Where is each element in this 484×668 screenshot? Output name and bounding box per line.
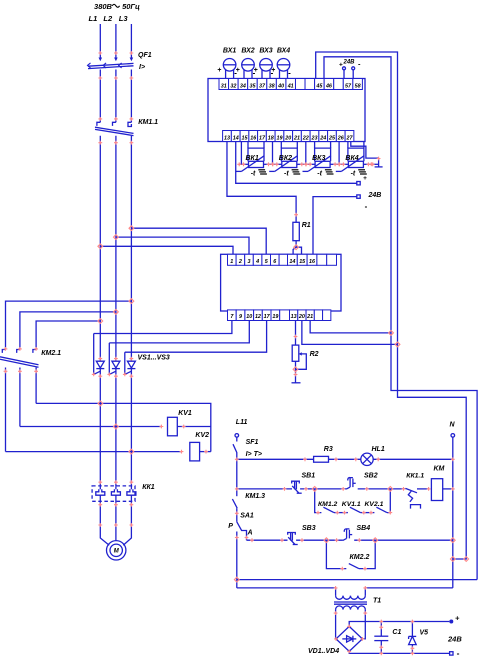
junction diamond marks xyxy=(98,226,469,582)
label KV2.1 xyxy=(365,501,384,508)
wire gate VS1 to block A2 terminal xyxy=(94,321,232,334)
wire KK1 to motor L2 xyxy=(115,507,117,541)
wire C1 upper xyxy=(380,622,382,637)
wire KV2 to right riser xyxy=(200,451,211,453)
svg-text:I> T>: I> T> xyxy=(246,451,262,458)
svg-text:24В: 24В xyxy=(447,635,462,644)
transformer T1 secondary xyxy=(336,606,366,639)
thyristor VS1 xyxy=(94,361,105,376)
svg-text:SA1: SA1 xyxy=(240,513,254,520)
wire terminal 14 to +24V terminal xyxy=(236,142,357,184)
svg-text:Т1: Т1 xyxy=(373,598,381,605)
wire terminal 27 to sensor common xyxy=(351,142,379,159)
wire L3 VS3 to KK1 xyxy=(130,376,132,486)
wire L3 supply drop xyxy=(130,24,134,61)
svg-text:40: 40 xyxy=(277,83,284,89)
wire L2 tap to block A2 input xyxy=(116,237,249,254)
svg-text:КМ2.1: КМ2.1 xyxy=(41,350,61,357)
terminal +24V output xyxy=(357,182,360,185)
wire L1 QF1 to KM1.1 xyxy=(99,70,101,123)
svg-text:КМ1.3: КМ1.3 xyxy=(245,493,265,500)
wire VS2 gate xyxy=(108,343,110,375)
svg-text:-: - xyxy=(457,648,460,658)
lamp HL1 xyxy=(361,453,373,465)
svg-text:38: 38 xyxy=(269,83,275,89)
block A1 top terminal row 31-58 xyxy=(219,79,362,90)
svg-text:-t: -t xyxy=(284,170,289,177)
wire KM to N rail xyxy=(443,488,453,490)
measuring transducer BX2 xyxy=(236,59,256,79)
resistor R1 xyxy=(293,222,299,240)
wire gate VS3 to block A2 terminal xyxy=(125,321,267,353)
label KV1.1 xyxy=(342,501,361,508)
svg-text:15: 15 xyxy=(241,135,248,141)
wire V5 lower xyxy=(411,645,413,654)
label KV1 xyxy=(178,410,192,417)
svg-text:KV2: KV2 xyxy=(195,432,209,439)
label KM xyxy=(434,466,445,473)
R2 wiper arrow xyxy=(296,352,307,369)
label KK1.1 xyxy=(406,473,424,480)
label VD1..VD4 xyxy=(308,648,339,655)
svg-text:15: 15 xyxy=(299,259,306,265)
svg-text:КК1: КК1 xyxy=(142,484,155,491)
svg-text:20: 20 xyxy=(298,314,305,320)
svg-text:-: - xyxy=(288,69,291,78)
wire R1 to block A2 xyxy=(295,241,297,248)
svg-text:-t: -t xyxy=(251,170,256,177)
svg-text:ВХ3: ВХ3 xyxy=(259,48,272,55)
relay coil KV1 xyxy=(168,417,178,436)
svg-text:SB2: SB2 xyxy=(364,473,378,480)
svg-text:ВК1: ВК1 xyxy=(246,155,259,162)
wire V5 upper xyxy=(411,622,413,637)
aux contacts branch KM1.2 KV1.1 KV2.1 wires xyxy=(315,489,391,513)
wire BK1 to BK2 xyxy=(272,163,274,165)
svg-text:3: 3 xyxy=(248,259,251,265)
wire rail A (to +24V bus) xyxy=(237,579,477,581)
aux contact KM2.2 branch xyxy=(326,540,375,568)
push button SB4 xyxy=(343,529,352,541)
svg-text:57: 57 xyxy=(345,83,352,89)
node L3 label xyxy=(119,14,129,23)
circuit breaker SF1 xyxy=(233,437,237,456)
relay coil KV2 xyxy=(190,442,200,461)
svg-text:KV1.1: KV1.1 xyxy=(342,501,361,508)
svg-text:-: - xyxy=(365,202,368,211)
wire terminal 13b to R2 xyxy=(295,321,297,346)
wire BK4 to common terminal xyxy=(373,163,379,165)
wire terminal 16 to -24V terminal xyxy=(313,197,357,255)
wire rung1 left xyxy=(237,458,314,460)
svg-text:ВК3: ВК3 xyxy=(312,155,325,162)
svg-text:13: 13 xyxy=(291,314,297,320)
resistor R3 xyxy=(314,456,329,462)
selector switch SA1 xyxy=(237,522,247,534)
svg-text:17: 17 xyxy=(259,135,266,141)
wire terminal 20 to right bus xyxy=(302,321,398,345)
svg-text:+: + xyxy=(363,175,367,182)
svg-text:23: 23 xyxy=(310,135,317,141)
wire terminal 13 to R1 xyxy=(227,142,296,223)
terminal pair +24V supply input xyxy=(343,67,355,79)
contactor aux contact KM1.3 xyxy=(232,499,237,522)
svg-text:КМ1.2: КМ1.2 xyxy=(318,501,338,508)
label BX1 xyxy=(223,48,236,55)
label R3 xyxy=(324,446,333,453)
wire L1 VS1 to KK1 xyxy=(99,376,101,486)
wire KM2.1 pole 3 down xyxy=(35,368,37,404)
terminal sensor common xyxy=(375,158,383,167)
wire L3 tap to block A2 input xyxy=(131,228,266,254)
svg-text:+: + xyxy=(236,67,240,74)
wire row KV2 (left) xyxy=(6,451,183,453)
label BX2 xyxy=(241,48,254,55)
wire rail B left xyxy=(237,587,336,589)
net label 380V 50Hz supply xyxy=(94,2,140,11)
svg-text:12: 12 xyxy=(255,314,261,320)
svg-text:35: 35 xyxy=(249,83,256,89)
label KM2.1 xyxy=(41,350,61,357)
measuring transducer BX1 xyxy=(217,59,237,79)
svg-text:24В: 24В xyxy=(342,60,355,66)
label VS1...VS3 xyxy=(138,355,170,362)
capacitor C1 xyxy=(374,636,388,640)
svg-text:P: P xyxy=(228,523,233,530)
wire KV1 to right riser xyxy=(177,426,211,428)
svg-text:L2: L2 xyxy=(103,14,113,23)
label R1 xyxy=(302,222,311,229)
svg-text:КМ2.2: КМ2.2 xyxy=(350,554,370,561)
wire SA1 P path down xyxy=(236,532,238,588)
svg-text:16: 16 xyxy=(250,135,257,141)
svg-text:R3: R3 xyxy=(324,446,333,453)
wire L2 bypass tap to KM2.1 pole xyxy=(20,312,116,350)
svg-text:4: 4 xyxy=(255,259,259,265)
svg-text:32: 32 xyxy=(230,83,236,89)
label KM2.2 xyxy=(350,554,370,561)
svg-text:KV1: KV1 xyxy=(178,410,192,417)
svg-text:14: 14 xyxy=(233,135,239,141)
svg-text:ВК2: ВК2 xyxy=(279,155,292,162)
block A2 bottom terminal row xyxy=(228,310,331,321)
contactor coil KM xyxy=(431,479,442,501)
svg-text:24В: 24В xyxy=(368,192,382,199)
svg-text:21: 21 xyxy=(306,314,313,320)
svg-text:ВХ4: ВХ4 xyxy=(277,48,290,55)
terminal -24V output xyxy=(357,195,360,198)
wire R3 to HL1 xyxy=(329,458,361,460)
svg-text:+: + xyxy=(254,67,258,74)
svg-text:26: 26 xyxy=(337,135,345,141)
wire L3 KM1.1 down to VS3 xyxy=(130,136,132,361)
wire HL1 to N rail xyxy=(373,458,453,460)
svg-text:HL1: HL1 xyxy=(372,446,385,453)
wire KM2.1 pole 1 down xyxy=(5,368,7,452)
svg-text:16: 16 xyxy=(309,259,316,265)
svg-text:2: 2 xyxy=(238,259,242,265)
push button SB3 xyxy=(288,533,298,545)
svg-text:31: 31 xyxy=(221,83,227,89)
svg-text:1: 1 xyxy=(230,259,233,265)
wire L2 supply drop xyxy=(114,24,118,61)
wire R2 to ground bar xyxy=(295,369,297,383)
label SB4 xyxy=(357,525,371,532)
svg-text:KV2.1: KV2.1 xyxy=(365,501,384,508)
svg-text:SB1: SB1 xyxy=(302,473,316,480)
wire VS1 gate xyxy=(93,334,95,375)
svg-text:SB3: SB3 xyxy=(302,525,316,532)
wire L3 bypass tap to KM2.1 pole xyxy=(6,301,132,349)
terminal L11 xyxy=(235,434,239,438)
svg-text:VS1...VS3: VS1...VS3 xyxy=(138,355,170,362)
wire L1 tap to block A2 input xyxy=(100,246,233,254)
label BK1 -t xyxy=(251,170,267,178)
svg-text:I>: I> xyxy=(139,64,145,71)
svg-text:-t: -t xyxy=(351,170,356,177)
svg-text:+: + xyxy=(455,614,460,623)
contactor contacts KM1.1 xyxy=(95,122,134,135)
wire row to KV coils (upper) xyxy=(36,403,211,451)
wire N rail down xyxy=(452,437,454,588)
svg-text:КМ1.1: КМ1.1 xyxy=(138,119,158,126)
svg-text:18: 18 xyxy=(268,135,274,141)
wire BK3 to BK4 xyxy=(338,163,340,165)
label SA1 A xyxy=(247,530,253,537)
label BK4 xyxy=(345,155,358,162)
wire KK1 to motor L3 xyxy=(123,507,131,545)
svg-text:46: 46 xyxy=(325,83,333,89)
svg-text:ВК4: ВК4 xyxy=(345,155,358,162)
svg-text:45: 45 xyxy=(315,83,323,89)
label SF1 I>T> xyxy=(246,451,262,458)
label QF1 I> xyxy=(139,64,145,71)
svg-text:+: + xyxy=(217,67,221,74)
svg-text:20: 20 xyxy=(284,135,291,141)
wire left rail L11 xyxy=(236,456,238,496)
circuit breaker QF1 xyxy=(88,63,134,69)
wire KK1 to motor L1 xyxy=(100,507,109,545)
block A1 bottom terminal row 13-27 xyxy=(223,131,354,142)
label BK3 -t xyxy=(317,170,333,178)
push button SB1 xyxy=(292,481,302,493)
wire row KV1 (left) xyxy=(20,426,162,428)
svg-text:41: 41 xyxy=(287,83,294,89)
svg-text:SB4: SB4 xyxy=(357,525,371,532)
label BK1 xyxy=(246,155,259,162)
svg-text:V5: V5 xyxy=(420,630,429,637)
node L11 label xyxy=(236,419,248,426)
contactor contacts KM2.1 xyxy=(0,350,39,368)
wire R1 junction to terminal 15 xyxy=(296,247,301,254)
wire R1 junction to terminal 14 xyxy=(293,247,296,254)
wire VS3 gate xyxy=(124,352,126,374)
wire bridge plus to output xyxy=(349,622,449,627)
svg-text:27: 27 xyxy=(345,135,353,141)
controller block A2 outline xyxy=(221,254,341,311)
svg-text:SF1: SF1 xyxy=(246,439,259,446)
thermal contact KK1.1 xyxy=(406,488,429,508)
label SF1 xyxy=(246,439,259,446)
svg-text:L1: L1 xyxy=(89,14,98,23)
motor M xyxy=(107,541,126,560)
terminal N xyxy=(451,434,455,438)
thermal overload relay KK1 xyxy=(92,486,136,507)
label C1 xyxy=(392,629,401,636)
svg-text:13: 13 xyxy=(224,135,230,141)
wire C1 lower xyxy=(380,641,382,654)
transformer T1 primary xyxy=(336,588,366,599)
wire BK2 to BK3 xyxy=(305,163,307,165)
wire L2 VS2 to KK1 xyxy=(115,376,117,486)
measuring transducer BX4 xyxy=(271,59,291,79)
wire L1 bypass tap to KM2.1 pole xyxy=(36,321,100,350)
label SB2 xyxy=(364,473,378,480)
wire rung3 left xyxy=(247,539,288,541)
transformer T1 core xyxy=(334,602,367,604)
wire rung2 left xyxy=(237,488,292,490)
temperature sensor BK2 xyxy=(269,142,306,172)
svg-text:L11: L11 xyxy=(236,419,248,426)
label SB1 xyxy=(302,473,316,480)
wire terminal 21 to right bus xyxy=(310,321,391,333)
wire terminal 45 to right bus xyxy=(316,52,467,559)
wire terminal 46 to right bus xyxy=(324,57,477,580)
wire KM2.1 pole 2 down xyxy=(19,368,21,427)
wire SA1 A to rung3 xyxy=(246,534,248,540)
label KK1 xyxy=(142,484,155,491)
label KV2 xyxy=(195,432,209,439)
measuring transducer BX3 xyxy=(254,59,274,79)
label T1 xyxy=(373,598,381,605)
label plus xyxy=(455,614,460,623)
label KM1.3 xyxy=(245,493,265,500)
svg-text:21: 21 xyxy=(293,135,300,141)
svg-text:R1: R1 xyxy=(302,222,311,229)
wire SB3 to SB4 xyxy=(296,539,343,541)
svg-text:58: 58 xyxy=(355,83,361,89)
svg-text:КК1.1: КК1.1 xyxy=(406,473,424,480)
zener diode V5 xyxy=(409,636,417,644)
label SA1 P xyxy=(228,523,233,530)
terminal +24V xyxy=(449,620,453,624)
svg-text:19: 19 xyxy=(276,135,282,141)
svg-text:380В: 380В xyxy=(94,2,113,11)
label KM1.2 xyxy=(318,501,338,508)
svg-text:R2: R2 xyxy=(310,351,319,358)
label BK3 xyxy=(312,155,325,162)
wire L3 QF1 to KM1.1 xyxy=(130,70,132,123)
temperature sensor BK3 xyxy=(303,142,340,172)
label 24V output main xyxy=(447,635,462,644)
wire SB4 to N rail xyxy=(354,539,453,541)
wire rail B right xyxy=(365,587,453,589)
controller block A1 outline xyxy=(208,79,365,142)
svg-text:ВХ1: ВХ1 xyxy=(223,48,236,55)
terminal -24V xyxy=(450,652,453,655)
label V5 xyxy=(420,630,429,637)
label +24V input xyxy=(339,60,361,69)
thyristor VS2 xyxy=(109,361,120,376)
label BX3 xyxy=(259,48,272,55)
temperature sensor BK1 xyxy=(236,142,273,172)
svg-text:ВХ2: ВХ2 xyxy=(241,48,254,55)
svg-text:14: 14 xyxy=(289,259,295,265)
push button SB2 xyxy=(346,478,355,490)
wire terminal 15 to BK1 xyxy=(240,142,242,165)
wire gate VS2 to block A2 terminal xyxy=(109,321,249,343)
svg-text:VD1..VD4: VD1..VD4 xyxy=(308,648,339,655)
label R2 xyxy=(310,351,319,358)
svg-text:QF1: QF1 xyxy=(138,52,152,59)
wire SB2 to KK1.1 xyxy=(358,488,406,490)
label BK2 -t xyxy=(284,170,300,178)
svg-text:L3: L3 xyxy=(119,14,129,23)
temperature sensor BK4 xyxy=(336,142,373,172)
node N label xyxy=(450,422,456,429)
label HL1 xyxy=(372,446,385,453)
svg-text:19: 19 xyxy=(272,314,278,320)
svg-text:С1: С1 xyxy=(392,629,401,636)
svg-text:25: 25 xyxy=(328,135,336,141)
terminal bar under R2 xyxy=(292,382,301,384)
thyristor VS3 xyxy=(125,361,136,376)
svg-text:+: + xyxy=(271,67,275,74)
label 24V output xyxy=(363,175,381,211)
wire L2 QF1 to KM1.1 xyxy=(115,70,117,123)
label minus xyxy=(457,648,460,658)
svg-text:KM: KM xyxy=(434,466,445,473)
block A2 top terminal row xyxy=(228,254,337,265)
svg-text:37: 37 xyxy=(259,83,266,89)
label BK2 xyxy=(279,155,292,162)
bridge rectifier VD1..VD4 xyxy=(336,626,362,651)
wire L1 KM1.1 down to VS1 xyxy=(99,136,101,361)
label BK4 -t xyxy=(351,170,367,178)
svg-text:+: + xyxy=(339,62,343,69)
svg-text:-t: -t xyxy=(317,170,322,177)
svg-text:24: 24 xyxy=(319,135,326,141)
label SA1 xyxy=(240,513,254,520)
label KM1.1 xyxy=(138,119,158,126)
svg-text:50Гц: 50Гц xyxy=(122,2,140,11)
svg-text:34: 34 xyxy=(240,83,246,89)
svg-text:10: 10 xyxy=(246,314,252,320)
node L2 label xyxy=(103,14,113,23)
wire L2 KM1.1 down to VS2 xyxy=(115,136,117,361)
wire L1 supply drop xyxy=(99,24,103,61)
wire SB1 to SB2 xyxy=(300,488,346,490)
svg-text:22: 22 xyxy=(302,135,309,141)
resistor R2 (trimmer) xyxy=(292,345,299,361)
label BX4 xyxy=(277,48,290,55)
node L1 label xyxy=(89,14,98,23)
wire bridge minus to output xyxy=(349,651,449,653)
svg-text:9: 9 xyxy=(239,314,242,320)
svg-text:17: 17 xyxy=(264,314,271,320)
label QF1 xyxy=(138,52,152,59)
label SB3 xyxy=(302,525,316,532)
svg-text:A: A xyxy=(247,530,253,537)
